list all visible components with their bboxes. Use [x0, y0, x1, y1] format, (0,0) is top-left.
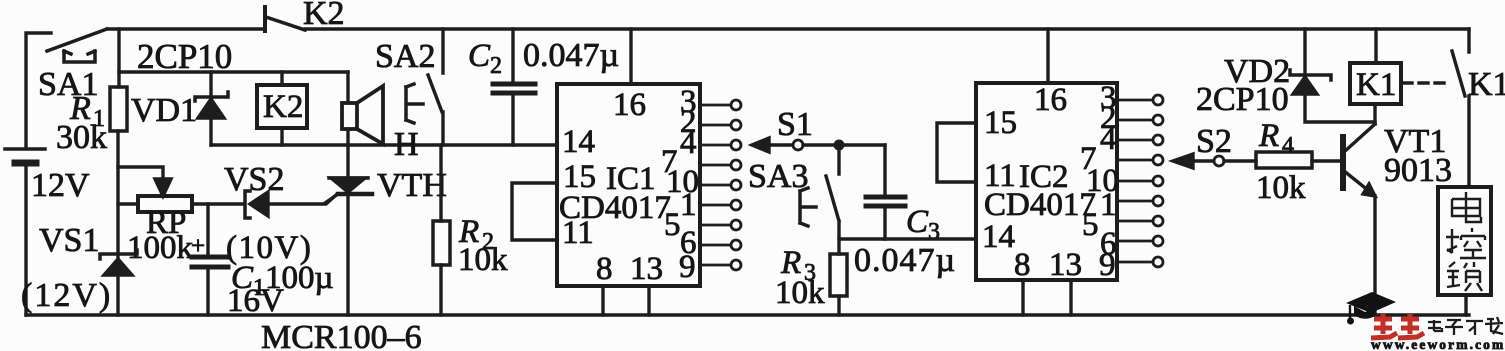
- wire IC1 pin16: [629, 29, 632, 84]
- wire bottom rail: [26, 313, 1469, 316]
- svg-text:8: 8: [1014, 247, 1031, 283]
- transistor VT1 9013: [1343, 123, 1452, 196]
- svg-text:15: 15: [984, 105, 1017, 141]
- dashed link K1 coil to contact: [1403, 81, 1447, 84]
- IC2 CD4017 box: [976, 80, 1119, 283]
- wire R1 bottom vertical: [116, 131, 119, 315]
- svg-text:10k: 10k: [775, 275, 825, 311]
- svg-text:0.047µ: 0.047µ: [854, 242, 956, 279]
- svg-text:14: 14: [562, 124, 595, 160]
- thyristor VTH: [325, 167, 447, 204]
- node junction below SA1: [117, 29, 120, 87]
- svg-text:9: 9: [1099, 247, 1116, 283]
- watermark www.eeworm.com: [1371, 337, 1505, 351]
- wire IC2 pin15-pin11 loop: [937, 123, 976, 182]
- svg-text:10k: 10k: [458, 242, 508, 278]
- svg-text:C: C: [906, 204, 929, 240]
- diode VD1: [131, 72, 228, 145]
- wire IC1 pin13: [647, 286, 650, 315]
- svg-text:5: 5: [664, 207, 681, 243]
- resistor R1: [56, 87, 127, 156]
- svg-text:2CP10: 2CP10: [137, 37, 232, 76]
- label 电控锁 (electric lock) drawn strokes: [1446, 192, 1486, 291]
- wire IC1 pin15-pin11 loop: [512, 183, 557, 240]
- wire left rail: [26, 33, 51, 315]
- svg-text:(12V): (12V): [21, 277, 112, 314]
- wire top rail right segment: [305, 27, 1469, 30]
- svg-text:8: 8: [596, 251, 613, 287]
- capacitor C3: [854, 145, 956, 279]
- wire VT1 collector: [1373, 104, 1376, 124]
- wire IC2 pin8: [1021, 280, 1024, 315]
- wire mid rail (pin14 net): [211, 143, 557, 146]
- watermark graduation cap logo: [1346, 292, 1396, 325]
- relay coil K2: [257, 72, 307, 145]
- svg-text:S2: S2: [1196, 123, 1232, 160]
- svg-text:4: 4: [1100, 121, 1117, 157]
- speaker H: [342, 72, 419, 163]
- svg-text:10k: 10k: [1256, 170, 1306, 206]
- IC2 output pins with terminals: [1117, 95, 1163, 267]
- switch SA1: [38, 29, 107, 103]
- node junction S1/SA3/C3: [834, 140, 886, 151]
- IC1 output pins with terminals: [700, 100, 741, 270]
- wire IC2 pin13: [1069, 280, 1072, 315]
- watermark 电子下载站 black: [1428, 317, 1503, 335]
- svg-text:0.047µ: 0.047µ: [523, 37, 619, 74]
- svg-text:1: 1: [680, 187, 697, 223]
- svg-text:www.eeworm.com: www.eeworm.com: [1371, 337, 1505, 351]
- svg-text:4: 4: [680, 125, 697, 161]
- svg-text:5: 5: [1082, 207, 1099, 243]
- svg-text:2CP10: 2CP10: [1196, 81, 1289, 118]
- capacitor C1: [191, 204, 334, 319]
- svg-text:16: 16: [1034, 82, 1067, 118]
- svg-text:SA2: SA2: [375, 38, 435, 75]
- svg-text:VTH: VTH: [377, 167, 447, 204]
- wire VT1 emitter to ground: [1373, 196, 1376, 315]
- svg-text:VD1: VD1: [131, 92, 197, 129]
- svg-text:SA3: SA3: [748, 158, 808, 195]
- selector S2 arrow: [1173, 123, 1256, 168]
- svg-text:100k: 100k: [127, 230, 194, 266]
- potentiometer RP: [118, 167, 244, 266]
- svg-text:13: 13: [1049, 247, 1082, 283]
- svg-text:+: +: [191, 233, 205, 260]
- svg-text:K1: K1: [1468, 66, 1505, 103]
- svg-text:12V: 12V: [31, 167, 90, 204]
- resistor R2: [433, 145, 508, 315]
- svg-text:4: 4: [1282, 133, 1294, 159]
- wire clock net to IC2 pin14: [839, 237, 976, 240]
- zener diode VS2: [224, 161, 336, 266]
- resistor R4: [1256, 118, 1341, 206]
- switch K2 (top contact): [265, 0, 345, 32]
- switch SA3: [748, 150, 839, 254]
- svg-text:14: 14: [982, 219, 1015, 255]
- wire VTH cathode to ground: [346, 194, 349, 315]
- diode VD2: [1196, 29, 1375, 122]
- svg-text:K1: K1: [1356, 67, 1396, 103]
- wire 2CP10 rail: [119, 37, 348, 76]
- selector S1 arrow: [752, 106, 834, 152]
- svg-text:H: H: [394, 126, 419, 163]
- battery 12V: [5, 149, 90, 204]
- switch SA2: [375, 29, 443, 145]
- switch K1 contact: [1452, 29, 1505, 187]
- svg-text:VS1: VS1: [39, 222, 99, 259]
- relay coil K1: [1350, 29, 1401, 104]
- zener diode VS1: [21, 222, 137, 314]
- svg-text:30k: 30k: [56, 119, 107, 156]
- svg-text:MCR100–6: MCR100–6: [261, 319, 422, 351]
- svg-text:S1: S1: [777, 106, 813, 143]
- wire top rail left segment: [107, 27, 265, 30]
- svg-text:R: R: [1258, 118, 1279, 154]
- svg-text:C: C: [468, 38, 491, 74]
- wire speaker to VTH: [346, 129, 349, 178]
- svg-text:11: 11: [562, 215, 594, 251]
- svg-text:9: 9: [679, 249, 696, 285]
- electric lock box: [1438, 187, 1491, 315]
- svg-text:CD4017: CD4017: [984, 187, 1096, 223]
- svg-text:K2: K2: [263, 89, 303, 125]
- svg-text:2: 2: [490, 53, 502, 79]
- svg-text:K2: K2: [303, 0, 345, 32]
- watermark 虫虫 red: [1371, 314, 1424, 338]
- capacitor C2: [468, 29, 619, 145]
- svg-text:(10V): (10V): [226, 230, 312, 266]
- label MCR100-6: [261, 319, 422, 351]
- svg-text:VS2: VS2: [224, 161, 284, 198]
- resistor R3: [775, 245, 847, 315]
- wire IC1 pin8: [601, 286, 604, 315]
- svg-text:1: 1: [1100, 187, 1117, 223]
- wire IC2 pin16: [1046, 29, 1049, 83]
- svg-text:9013: 9013: [1384, 152, 1452, 189]
- IC1 CD4017 box: [557, 84, 700, 287]
- svg-text:13: 13: [630, 251, 663, 287]
- svg-text:16: 16: [613, 87, 646, 123]
